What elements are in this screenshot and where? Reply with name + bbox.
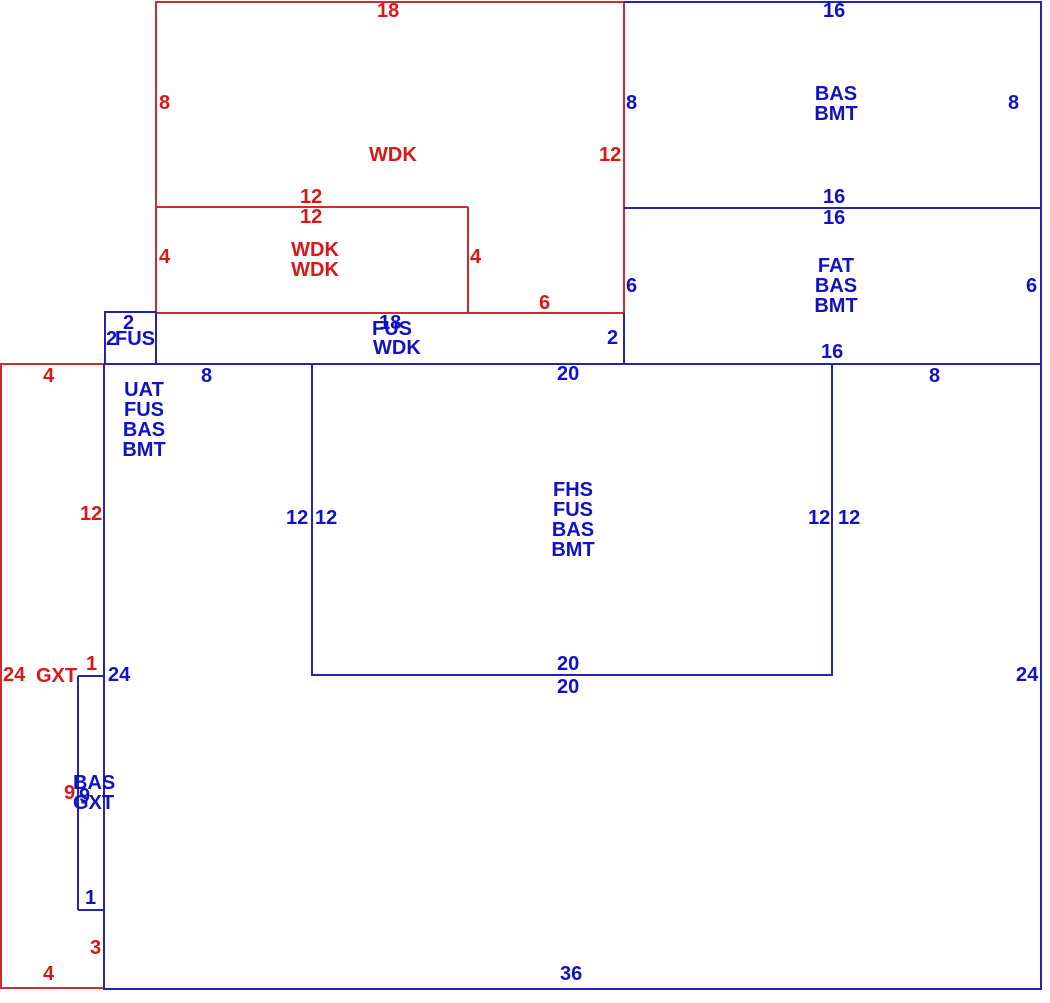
GXT left shape left edge: [0, 363, 2, 989]
label 36 bottom of main: [560, 967, 582, 981]
label 12 right outside FHS: [838, 511, 860, 525]
label 8 left of BAS BMT: [626, 96, 637, 110]
label 4 right inner WDK: [470, 250, 481, 264]
WDK outer rect left edge: [155, 1, 157, 314]
label 6 right of FAT: [1026, 279, 1037, 293]
label WDK WDK inner stack: [291, 240, 339, 280]
label 12 below inner WDK top: [300, 210, 322, 224]
label 20 above FHS bottom: [557, 657, 579, 671]
label 2 right of strip: [607, 331, 618, 345]
label 2 top of FUS box: [123, 316, 134, 330]
BAS GXT small rect top edge: [78, 675, 104, 677]
label 18 center strip: [379, 316, 401, 330]
BAS BMT / FAT divider: [624, 207, 1041, 209]
label 20 below FHS bottom: [557, 680, 579, 694]
label 12 left inside FHS: [315, 511, 337, 525]
label UAT FUS BAS BMT stack: [122, 380, 165, 460]
label 16 above divider: [823, 190, 845, 204]
label 16 top of BAS BMT: [823, 4, 845, 18]
label BAS GXT stack: [73, 773, 115, 813]
BAS GXT small rect left edge: [77, 676, 79, 910]
label WDK room name: [369, 148, 417, 162]
GXT left shape bottom edge: [0, 987, 104, 989]
label 4 left inner WDK: [159, 250, 170, 264]
label 6 bottom segment WDK: [539, 296, 550, 310]
label 24 left of GXT shape: [3, 668, 25, 682]
label FUS in FUS box: [115, 332, 155, 346]
label 8 right of BAS BMT: [1008, 96, 1019, 110]
label FHS FUS BAS BMT stack: [551, 480, 594, 560]
label 16 below divider: [823, 211, 845, 225]
label WDK center strip: [373, 341, 421, 355]
label 24 left inside main: [108, 668, 130, 682]
label 4 red bottom of GXT shape: [43, 967, 54, 981]
main rect bottom edge: [103, 988, 1041, 990]
FUS box top edge: [104, 311, 157, 313]
label 8 top left of main: [201, 369, 212, 383]
FHS rect right edge: [831, 364, 833, 676]
GXT left shape top edge: [0, 363, 105, 365]
label 12 right of WDK: [599, 148, 621, 162]
label FAT BAS BMT stack: [814, 256, 857, 316]
label BAS BMT stack: [814, 84, 857, 124]
BAS BMT rect top edge: [624, 1, 1041, 3]
WDK inner rect top edge: [156, 206, 468, 208]
label 6 left of FAT: [626, 279, 637, 293]
label 12 left outside FHS: [286, 511, 308, 525]
label 1 blue bottom of small rect: [85, 891, 96, 905]
WDK inner rect right edge: [467, 207, 469, 313]
label 2 in FUS box: [106, 332, 117, 346]
label 4 top of GXT shape: [43, 369, 54, 383]
label 16 above main top right: [821, 345, 843, 359]
label 3 red below small rect: [90, 941, 101, 955]
FUS box left edge: [104, 312, 106, 364]
label 24 right inside main: [1016, 668, 1038, 682]
label 8 top right of main: [929, 369, 940, 383]
label 12 right of GXT shape: [80, 507, 102, 521]
main rect left edge: [103, 364, 105, 990]
label 18 top of WDK: [377, 4, 399, 18]
main rect top edge: [104, 363, 1041, 365]
WDK outer rect right edge: [623, 1, 625, 314]
WDK outer rect top edge: [155, 1, 625, 3]
BAS GXT small rect bottom edge: [78, 909, 104, 911]
FHS rect bottom edge: [312, 674, 832, 676]
FAT rect left lower edge: [623, 313, 625, 364]
WDK outer rect bottom edge: [155, 312, 625, 314]
label 20 top center of main: [557, 367, 579, 381]
label 12 above inner WDK top: [300, 190, 322, 204]
label GXT room name: [36, 669, 77, 683]
label FUS center strip: [372, 322, 412, 336]
FHS rect left edge: [311, 364, 313, 676]
label 9 red left of small rect: [64, 786, 75, 800]
label 9 blue in small rect: [79, 789, 90, 803]
FUS box right edge lower part: [155, 313, 157, 364]
label 1 red above small rect: [86, 657, 97, 671]
label 12 right inside FHS: [808, 511, 830, 525]
label 8 left of WDK: [159, 96, 170, 110]
right outer edge: [1040, 1, 1042, 990]
